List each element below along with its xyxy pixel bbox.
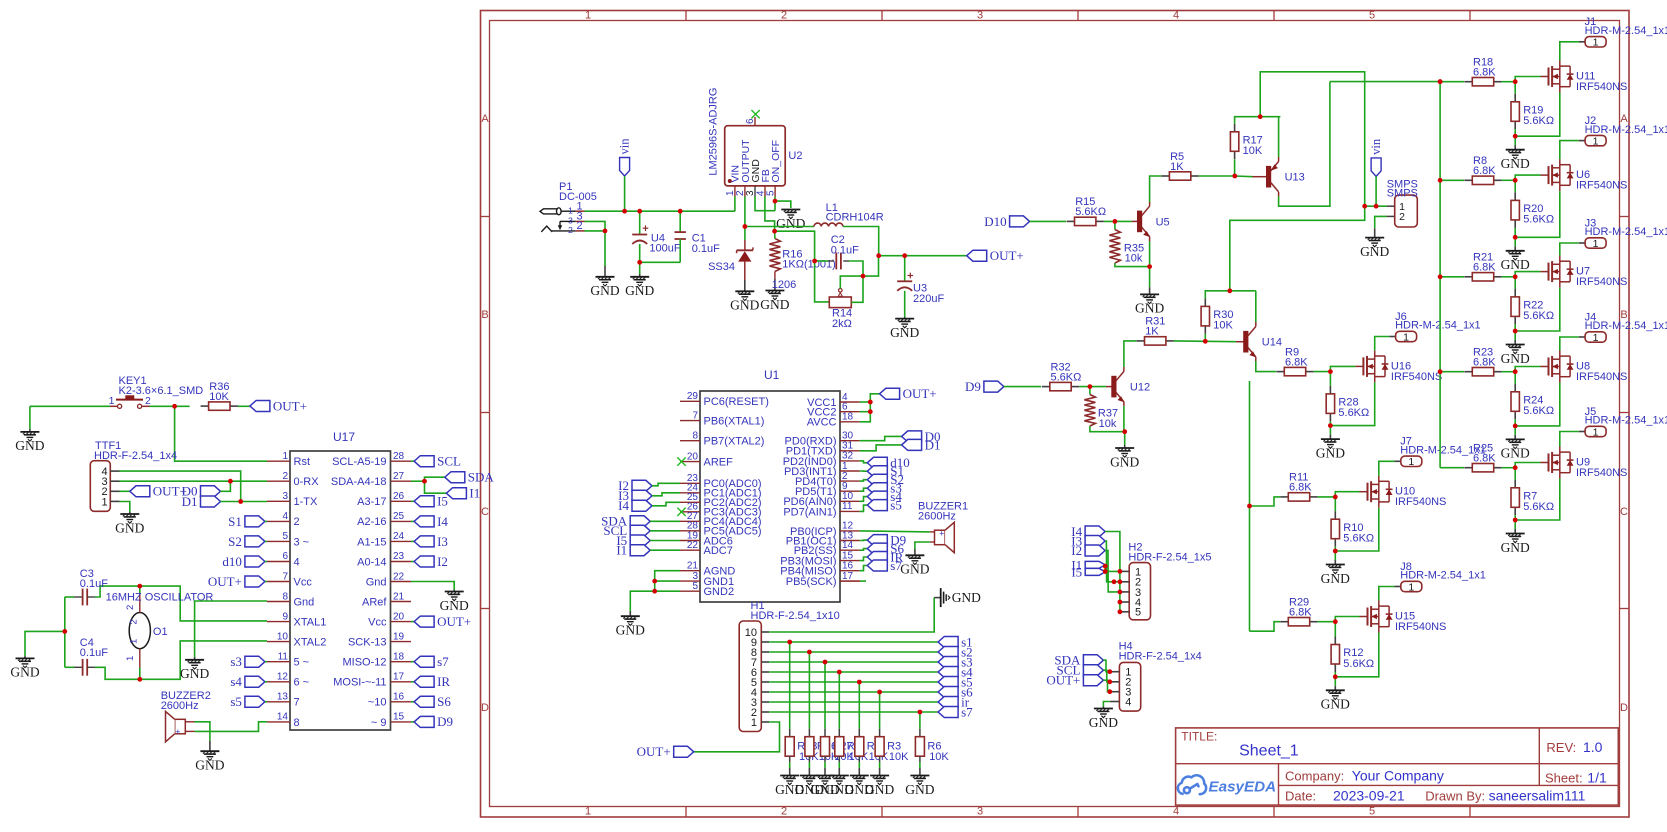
- svg-text:U14: U14: [1262, 337, 1282, 349]
- svg-text:O1: O1: [153, 626, 168, 638]
- svg-text:IRF540NS: IRF540NS: [1391, 371, 1442, 383]
- svg-text:A2-16: A2-16: [357, 516, 386, 528]
- svg-text:GND: GND: [1360, 244, 1389, 259]
- svg-text:I3: I3: [437, 534, 448, 549]
- svg-text:2: 2: [294, 516, 300, 528]
- svg-text:1: 1: [1593, 37, 1599, 49]
- svg-text:1: 1: [568, 206, 573, 216]
- svg-text:6 ~: 6 ~: [294, 677, 310, 689]
- svg-text:Date:: Date:: [1285, 789, 1316, 804]
- svg-text:10K: 10K: [929, 751, 949, 763]
- svg-text:GND: GND: [590, 283, 619, 298]
- svg-text:OUT+: OUT+: [990, 248, 1024, 263]
- svg-text:1: 1: [751, 717, 757, 729]
- svg-text:2: 2: [781, 9, 787, 21]
- svg-text:3: 3: [568, 216, 573, 226]
- svg-text:9: 9: [282, 611, 288, 622]
- svg-text:MOSI-~-11: MOSI-~-11: [333, 677, 386, 689]
- svg-text:3: 3: [977, 9, 983, 21]
- svg-text:PB5(SCK): PB5(SCK): [786, 576, 837, 588]
- svg-text:IRF540NS: IRF540NS: [1395, 496, 1446, 508]
- svg-text:GND: GND: [195, 758, 224, 773]
- svg-text:2023-09-21: 2023-09-21: [1333, 788, 1405, 804]
- svg-text:GND: GND: [760, 297, 789, 312]
- svg-text:GND: GND: [952, 590, 981, 605]
- svg-text:s3: s3: [230, 654, 242, 669]
- svg-text:1-TX: 1-TX: [294, 496, 319, 508]
- svg-text:6.8K: 6.8K: [1289, 482, 1312, 494]
- svg-text:GND: GND: [440, 598, 469, 613]
- svg-text:24: 24: [393, 531, 405, 542]
- svg-text:27: 27: [393, 471, 405, 482]
- svg-text:D: D: [481, 702, 489, 714]
- svg-text:Vcc: Vcc: [294, 576, 313, 588]
- svg-text:1: 1: [109, 395, 115, 407]
- svg-text:I2: I2: [1071, 543, 1082, 558]
- svg-text:29: 29: [687, 391, 699, 402]
- svg-text:6.8K: 6.8K: [1289, 607, 1312, 619]
- svg-text:Gnd: Gnd: [294, 596, 315, 608]
- svg-text:saneersalim111: saneersalim111: [1489, 788, 1586, 804]
- svg-text:2: 2: [568, 225, 573, 235]
- svg-text:IRF540NS: IRF540NS: [1576, 467, 1627, 479]
- svg-text:ARef: ARef: [362, 596, 387, 608]
- svg-text:TITLE:: TITLE:: [1181, 729, 1217, 743]
- svg-text:SCL: SCL: [437, 454, 461, 469]
- svg-text:SMPS: SMPS: [1387, 187, 1418, 199]
- svg-text:GND: GND: [15, 438, 44, 453]
- svg-text:5: 5: [1369, 806, 1375, 818]
- svg-text:0-RX: 0-RX: [294, 476, 320, 488]
- svg-text:1: 1: [585, 806, 591, 818]
- svg-text:EasyEDA: EasyEDA: [1209, 779, 1277, 796]
- svg-text:GND: GND: [616, 623, 645, 638]
- svg-text:7: 7: [692, 410, 698, 421]
- svg-text:OUT+: OUT+: [273, 398, 307, 413]
- svg-text:0.1uF: 0.1uF: [831, 244, 859, 256]
- svg-text:s5: s5: [890, 498, 902, 513]
- svg-text:21: 21: [687, 561, 699, 572]
- svg-text:SCK-13: SCK-13: [348, 637, 387, 649]
- svg-text:6.8K: 6.8K: [1473, 453, 1496, 465]
- svg-text:I1: I1: [469, 486, 480, 501]
- svg-text:6.8K: 6.8K: [1285, 356, 1308, 368]
- svg-text:GND: GND: [776, 216, 805, 231]
- svg-text:HDR-M-2.54_1x1: HDR-M-2.54_1x1: [1395, 320, 1481, 332]
- svg-text:SS34: SS34: [708, 261, 735, 273]
- svg-text:1: 1: [1593, 238, 1599, 250]
- svg-text:1: 1: [1408, 456, 1414, 468]
- svg-text:6.8K: 6.8K: [1473, 357, 1496, 369]
- svg-text:5.6KΩ: 5.6KΩ: [1343, 658, 1374, 670]
- svg-text:0.1uF: 0.1uF: [692, 243, 720, 255]
- svg-text:IRF540NS: IRF540NS: [1576, 371, 1627, 383]
- svg-text:S1: S1: [228, 514, 242, 529]
- svg-text:OUT+: OUT+: [437, 614, 471, 629]
- svg-text:IR: IR: [437, 674, 450, 689]
- svg-text:I5: I5: [437, 494, 448, 509]
- svg-text:5.6KΩ: 5.6KΩ: [1523, 501, 1554, 513]
- svg-text:6: 6: [282, 551, 288, 562]
- svg-text:1: 1: [125, 656, 136, 661]
- svg-text:D10: D10: [984, 214, 1006, 229]
- svg-text:2600Hz: 2600Hz: [918, 511, 956, 523]
- svg-text:8: 8: [692, 431, 698, 442]
- svg-text:I2: I2: [437, 554, 448, 569]
- svg-text:XTAL1: XTAL1: [294, 617, 327, 629]
- svg-text:2600Hz: 2600Hz: [161, 700, 199, 712]
- svg-text:XTAL2: XTAL2: [294, 637, 327, 649]
- svg-text:PD7(AIN1): PD7(AIN1): [783, 506, 836, 518]
- svg-text:~10: ~10: [368, 697, 387, 709]
- svg-text:100uF: 100uF: [649, 243, 680, 255]
- svg-text:2kΩ: 2kΩ: [832, 318, 852, 330]
- svg-text:ADC7: ADC7: [704, 545, 733, 557]
- svg-text:17: 17: [842, 571, 854, 582]
- svg-text:1K: 1K: [1145, 326, 1159, 338]
- svg-text:HDR-M-2.54_1x1: HDR-M-2.54_1x1: [1585, 124, 1667, 136]
- svg-text:5.6KΩ: 5.6KΩ: [1523, 115, 1554, 127]
- svg-text:REV:: REV:: [1546, 740, 1576, 755]
- svg-text:8: 8: [282, 591, 288, 602]
- svg-text:GND: GND: [1316, 445, 1345, 460]
- svg-text:5: 5: [1369, 9, 1375, 21]
- svg-text:AVCC: AVCC: [807, 417, 837, 429]
- svg-text:1: 1: [1593, 332, 1599, 344]
- svg-text:10k: 10k: [1099, 418, 1117, 430]
- svg-text:18: 18: [842, 412, 854, 423]
- svg-text:18: 18: [393, 652, 405, 663]
- svg-text:1: 1: [101, 496, 107, 508]
- svg-text:D9: D9: [965, 379, 981, 394]
- svg-text:1: 1: [1593, 135, 1599, 147]
- svg-text:5.6KΩ: 5.6KΩ: [1523, 214, 1554, 226]
- svg-text:S6: S6: [437, 694, 451, 709]
- svg-text:Vcc: Vcc: [368, 617, 387, 629]
- svg-text:0.1uF: 0.1uF: [80, 578, 108, 590]
- svg-text:K2-3.6×6.1_SMD: K2-3.6×6.1_SMD: [119, 385, 204, 397]
- svg-text:IRF540NS: IRF540NS: [1576, 180, 1627, 192]
- svg-text:HDR-M-2.54_1x1: HDR-M-2.54_1x1: [1585, 25, 1667, 37]
- svg-text:+: +: [939, 529, 944, 539]
- svg-text:SCL-A5-19: SCL-A5-19: [332, 456, 386, 468]
- svg-text:3 ~: 3 ~: [294, 536, 310, 548]
- svg-text:5: 5: [282, 531, 288, 542]
- svg-text:D1: D1: [182, 494, 198, 509]
- svg-text:7: 7: [294, 697, 300, 709]
- svg-text:4: 4: [1173, 806, 1179, 818]
- svg-text:IRF540NS: IRF540NS: [1576, 81, 1627, 93]
- svg-text:GND: GND: [865, 782, 894, 797]
- svg-text:2: 2: [1399, 211, 1405, 223]
- svg-text:12: 12: [277, 672, 289, 683]
- svg-text:14: 14: [277, 712, 289, 723]
- svg-text:2: 2: [282, 471, 288, 482]
- svg-text:26: 26: [393, 491, 405, 502]
- svg-text:GND: GND: [1321, 697, 1350, 712]
- svg-text:GND: GND: [1089, 715, 1118, 730]
- svg-text:5.6KΩ: 5.6KΩ: [1523, 405, 1554, 417]
- svg-text:Sheet_1: Sheet_1: [1239, 742, 1299, 759]
- svg-text:B: B: [1620, 309, 1627, 321]
- svg-text:A3-17: A3-17: [357, 496, 386, 508]
- svg-text:5: 5: [1135, 607, 1141, 619]
- svg-text:U2: U2: [788, 150, 802, 162]
- svg-text:HDR-M-2.54_1x1: HDR-M-2.54_1x1: [1585, 320, 1667, 332]
- svg-text:5: 5: [692, 581, 698, 592]
- svg-text:Rst: Rst: [294, 456, 311, 468]
- svg-text:5.6KΩ: 5.6KΩ: [1523, 310, 1554, 322]
- svg-text:A1-15: A1-15: [357, 536, 386, 548]
- svg-text:5 ~: 5 ~: [294, 657, 310, 669]
- svg-text:GND: GND: [1501, 540, 1530, 555]
- svg-text:15: 15: [393, 712, 405, 723]
- svg-text:1: 1: [1403, 331, 1409, 343]
- svg-text:1: 1: [1408, 581, 1414, 593]
- svg-text:HDR-F-2.54_1x5: HDR-F-2.54_1x5: [1128, 552, 1211, 564]
- svg-text:13: 13: [277, 692, 289, 703]
- svg-text:s7: s7: [961, 704, 973, 719]
- svg-text:6: 6: [745, 118, 756, 124]
- svg-text:22: 22: [393, 571, 405, 582]
- svg-text:10K: 10K: [209, 391, 229, 403]
- svg-text:10K: 10K: [1243, 145, 1263, 157]
- svg-text:16: 16: [842, 561, 854, 572]
- svg-text:OUT+: OUT+: [1046, 673, 1080, 688]
- svg-text:23: 23: [393, 551, 405, 562]
- svg-text:10: 10: [277, 631, 289, 642]
- svg-text:I4: I4: [437, 514, 448, 529]
- svg-text:4: 4: [1173, 9, 1179, 21]
- svg-text:D9: D9: [437, 714, 453, 729]
- svg-text:I1: I1: [616, 543, 627, 558]
- svg-text:B: B: [481, 309, 488, 321]
- svg-text:U12: U12: [1130, 382, 1150, 394]
- svg-text:PC6(RESET): PC6(RESET): [704, 396, 769, 408]
- svg-text:U1: U1: [764, 368, 780, 382]
- svg-text:d10: d10: [222, 554, 242, 569]
- svg-text:22: 22: [687, 540, 699, 551]
- svg-text:5.6KΩ: 5.6KΩ: [1343, 533, 1374, 545]
- svg-text:GND: GND: [730, 298, 759, 313]
- svg-text:16: 16: [393, 692, 405, 703]
- svg-text:6.8K: 6.8K: [1473, 262, 1496, 274]
- svg-text:A: A: [481, 113, 489, 125]
- svg-text:GND: GND: [1501, 156, 1530, 171]
- svg-text:GND: GND: [1321, 571, 1350, 586]
- svg-text:OUT+: OUT+: [903, 386, 937, 401]
- svg-text:20: 20: [393, 611, 405, 622]
- svg-text:5.6KΩ: 5.6KΩ: [1338, 407, 1369, 419]
- svg-text:GND: GND: [10, 665, 39, 680]
- svg-text:17: 17: [393, 672, 405, 683]
- svg-text:I5: I5: [1071, 564, 1082, 579]
- svg-text:8: 8: [294, 717, 300, 729]
- svg-text:s5: s5: [230, 694, 242, 709]
- svg-text:GND: GND: [1110, 454, 1139, 469]
- svg-text:6.8K: 6.8K: [1473, 67, 1496, 79]
- svg-text:IRF540NS: IRF540NS: [1576, 276, 1627, 288]
- svg-text:1: 1: [282, 451, 288, 462]
- svg-text:0.1uF: 0.1uF: [80, 647, 108, 659]
- svg-text:10K: 10K: [1213, 320, 1233, 332]
- svg-text:1: 1: [1593, 426, 1599, 438]
- svg-text:Your Company: Your Company: [1352, 767, 1444, 783]
- svg-text:s4: s4: [230, 674, 242, 689]
- svg-text:5: 5: [765, 190, 776, 196]
- svg-text:GND: GND: [1501, 257, 1530, 272]
- svg-text:MISO-12: MISO-12: [342, 657, 386, 669]
- svg-text:HDR-M-2.54_1x1: HDR-M-2.54_1x1: [1585, 226, 1667, 238]
- svg-text:Gnd: Gnd: [366, 576, 387, 588]
- svg-text:20: 20: [687, 451, 699, 462]
- svg-text:4: 4: [282, 511, 288, 522]
- svg-text:GND: GND: [1135, 301, 1164, 316]
- svg-text:s7: s7: [437, 654, 449, 669]
- svg-text:1: 1: [129, 639, 140, 644]
- svg-text:PB6(XTAL1): PB6(XTAL1): [704, 416, 765, 428]
- svg-text:HDR-F-2.54_1x4: HDR-F-2.54_1x4: [1119, 651, 1202, 663]
- svg-text:GND: GND: [905, 782, 934, 797]
- svg-text:21: 21: [393, 591, 405, 602]
- svg-text:11: 11: [842, 501, 853, 512]
- svg-text:28: 28: [393, 451, 405, 462]
- svg-text:25: 25: [393, 511, 405, 522]
- svg-text:GND: GND: [625, 283, 654, 298]
- svg-text:~ 9: ~ 9: [371, 717, 387, 729]
- svg-text:AREF: AREF: [704, 457, 734, 469]
- svg-text:4: 4: [1125, 696, 1131, 708]
- svg-text:10k: 10k: [1125, 253, 1143, 265]
- svg-text:2: 2: [129, 619, 140, 624]
- svg-text:U17: U17: [333, 430, 355, 444]
- svg-text:4: 4: [294, 556, 300, 568]
- svg-text:1K: 1K: [1170, 161, 1184, 173]
- svg-text:S2: S2: [228, 534, 242, 549]
- svg-text:6.8K: 6.8K: [1473, 165, 1496, 177]
- svg-text:5.6KΩ: 5.6KΩ: [1075, 206, 1106, 218]
- svg-text:2: 2: [125, 605, 136, 610]
- svg-text:GND2: GND2: [704, 586, 735, 598]
- svg-text:U13: U13: [1285, 172, 1305, 184]
- svg-text:GND: GND: [890, 325, 919, 340]
- svg-text:14: 14: [842, 540, 854, 551]
- svg-text:vin: vin: [618, 138, 632, 155]
- svg-text:CDRH104R: CDRH104R: [826, 212, 884, 224]
- svg-text:HDR-M-2.54_1x1: HDR-M-2.54_1x1: [1400, 570, 1486, 582]
- svg-text:+: +: [175, 727, 180, 737]
- svg-text:PB7(XTAL2): PB7(XTAL2): [704, 436, 765, 448]
- svg-text:Company:: Company:: [1285, 768, 1344, 783]
- svg-text:I4: I4: [618, 498, 629, 513]
- svg-text:A0-14: A0-14: [357, 556, 386, 568]
- svg-text:GND: GND: [1501, 446, 1530, 461]
- svg-text:D1: D1: [925, 437, 941, 452]
- svg-text:SDA: SDA: [468, 470, 495, 485]
- svg-text:2: 2: [577, 220, 583, 232]
- svg-text:GND: GND: [115, 520, 144, 535]
- svg-text:1.0: 1.0: [1583, 739, 1603, 755]
- svg-text:GND: GND: [900, 562, 929, 577]
- svg-text:ON_OFF: ON_OFF: [770, 140, 782, 183]
- svg-text:GND: GND: [180, 666, 209, 681]
- svg-text:3: 3: [977, 806, 983, 818]
- svg-text:GND: GND: [1501, 351, 1530, 366]
- svg-text:C: C: [1620, 506, 1628, 518]
- svg-text:7: 7: [282, 571, 288, 582]
- svg-text:2: 2: [781, 806, 787, 818]
- svg-text:11: 11: [278, 652, 289, 663]
- svg-text:Drawn By:: Drawn By:: [1425, 789, 1485, 804]
- svg-text:U5: U5: [1156, 216, 1170, 228]
- svg-text:OUT+: OUT+: [208, 574, 242, 589]
- svg-text:C: C: [481, 506, 489, 518]
- svg-text:1206: 1206: [772, 279, 796, 291]
- svg-text:D: D: [1620, 702, 1628, 714]
- svg-text:5.6KΩ: 5.6KΩ: [1051, 371, 1082, 383]
- svg-text:Sheet:: Sheet:: [1545, 770, 1583, 785]
- svg-text:10K: 10K: [889, 751, 909, 763]
- svg-text:SDA-A4-18: SDA-A4-18: [331, 476, 387, 488]
- svg-text:220uF: 220uF: [913, 293, 944, 305]
- svg-text:3: 3: [282, 491, 288, 502]
- svg-text:vin: vin: [1369, 138, 1383, 155]
- svg-text:1: 1: [585, 9, 591, 21]
- svg-text:IRF540NS: IRF540NS: [1395, 621, 1446, 633]
- svg-text:OUT+: OUT+: [637, 744, 671, 759]
- svg-text:1/1: 1/1: [1587, 769, 1607, 785]
- svg-text:HDR-M-2.54_1x1: HDR-M-2.54_1x1: [1585, 415, 1667, 427]
- svg-text:LM2596S-ADJRG: LM2596S-ADJRG: [708, 88, 720, 176]
- svg-text:HDR-F-2.54_1x10: HDR-F-2.54_1x10: [751, 610, 840, 622]
- svg-text:19: 19: [393, 631, 405, 642]
